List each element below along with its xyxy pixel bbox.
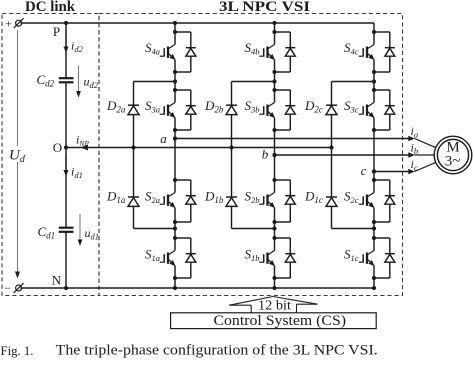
wire: neutral line O to clamp columns — [66, 147, 332, 149]
node O — [53, 140, 68, 155]
wire: phase a output line — [175, 138, 409, 140]
freewheel diode of S3c — [374, 90, 395, 130]
current arrow i_d2 — [63, 31, 83, 55]
svg-text:b: b — [262, 147, 269, 162]
svg-text:a: a — [160, 131, 167, 146]
IGBT S1b — [259, 238, 275, 278]
svg-text:DC link: DC link — [25, 0, 76, 15]
freewheel diode of S1b — [275, 238, 296, 278]
voltage arrow U_d — [6, 30, 27, 279]
current arrow i_a — [408, 124, 418, 141]
label S_1c — [344, 247, 359, 264]
freewheel diode of S4c — [374, 32, 395, 72]
wire: phase leg b interconnects — [274, 23, 276, 288]
label D_1c — [304, 189, 323, 206]
label S_2b — [245, 189, 260, 206]
label S_3c — [344, 98, 359, 115]
current arrow i_c — [408, 157, 418, 174]
svg-text:−: − — [4, 281, 11, 295]
wire: positive DC rail (P) — [21, 22, 375, 24]
svg-text:Control System (CS): Control System (CS) — [214, 312, 347, 329]
bus arrow 12 bit — [229, 297, 317, 313]
node c — [361, 163, 376, 178]
label D_2c — [304, 98, 323, 115]
label S_3a — [145, 98, 160, 115]
freewheel diode of S3a — [175, 90, 196, 130]
dashed box: DC link section border — [2, 14, 99, 296]
freewheel diode of S4b — [275, 32, 296, 72]
svg-text:P: P — [53, 24, 60, 39]
dashed box: 3L NPC VSI section border — [99, 14, 403, 296]
freewheel diode of S2a — [175, 180, 196, 222]
label S_2a — [145, 189, 160, 206]
freewheel diode of S3b — [275, 90, 296, 130]
current arrow i_b — [408, 141, 418, 158]
clamp diode D_2b — [226, 82, 275, 150]
IGBT S2c — [359, 180, 375, 222]
label S_2c — [344, 189, 359, 206]
clamp diode D_1b — [226, 148, 275, 229]
IGBT S2b — [259, 180, 275, 222]
title: DC link — [25, 0, 76, 15]
label S_1b — [245, 247, 260, 264]
node a — [160, 131, 177, 146]
label D_1b — [204, 189, 224, 206]
svg-text:N: N — [52, 273, 62, 288]
label D_2b — [204, 98, 224, 115]
svg-text:O: O — [53, 140, 62, 155]
label S_1a — [145, 247, 160, 264]
wire: phase leg a interconnects — [174, 23, 176, 288]
IGBT S3b — [259, 90, 275, 130]
voltage arrow u_d2 — [76, 66, 99, 98]
IGBT S1c — [359, 238, 375, 278]
current arrow i_d1 — [63, 154, 82, 181]
IGBT S3a — [160, 90, 176, 130]
wire: negative DC rail (N) — [21, 287, 375, 289]
freewheel diode of S4a — [175, 32, 196, 72]
node b — [262, 147, 277, 162]
svg-text:3~: 3~ — [445, 154, 461, 170]
label S_4c — [344, 40, 359, 57]
label S_4a — [145, 40, 160, 57]
caption Fig. 1 — [1, 342, 378, 359]
label D_1a — [106, 189, 126, 206]
terminal: - DC input — [4, 281, 23, 295]
svg-text:3L NPC VSI: 3L NPC VSI — [219, 0, 310, 15]
IGBT S2a — [160, 180, 176, 222]
clamp diode D_2a — [128, 82, 175, 150]
wire: phase c output line — [374, 171, 409, 173]
terminal: + DC input — [5, 17, 23, 31]
svg-text:Fig. 1.: Fig. 1. — [1, 343, 34, 358]
label S_4b — [245, 40, 260, 57]
wire: cable to motor phase c — [415, 162, 436, 171]
node N — [52, 273, 68, 291]
freewheel diode of S1c — [374, 238, 395, 278]
clamp diode D_1a — [128, 148, 175, 229]
current arrow i_NP — [76, 133, 89, 151]
svg-text:+: + — [5, 17, 12, 31]
wire: phase b output line — [275, 154, 409, 156]
freewheel diode of S2b — [275, 180, 296, 222]
IGBT S4a — [160, 32, 176, 72]
wire: DC-link capacitor column — [65, 23, 67, 288]
svg-text:The triple-phase configuration: The triple-phase configuration of the 3L… — [56, 342, 378, 359]
IGBT S4b — [259, 32, 275, 72]
junction dots phase leg b — [272, 21, 276, 290]
label S_3b — [245, 98, 260, 115]
svg-text:12 bit: 12 bit — [258, 298, 291, 313]
motor M 3~ — [434, 136, 472, 174]
title: 3L NPC VSI — [219, 0, 310, 15]
wire: cable to motor phase b — [415, 154, 435, 156]
control system box — [171, 312, 377, 329]
label D_2a — [106, 98, 126, 115]
capacitor C_d1 — [38, 224, 74, 241]
clamp diode D_2c — [326, 82, 374, 150]
IGBT S4c — [359, 32, 375, 72]
IGBT S3c — [359, 90, 375, 130]
junction dots phase leg c — [372, 30, 376, 290]
voltage arrow u_d1 — [78, 214, 99, 246]
node P — [53, 21, 68, 39]
freewheel diode of S2c — [374, 180, 395, 222]
clamp diode D_1c — [326, 148, 374, 229]
capacitor C_d2 — [37, 72, 74, 89]
wire: phase leg c interconnects — [373, 23, 375, 288]
junction dots phase leg a — [173, 21, 177, 290]
freewheel diode of S1a — [175, 238, 196, 278]
wire: cable to motor phase a — [415, 139, 436, 148]
IGBT S1a — [160, 238, 176, 278]
svg-text:c: c — [361, 163, 367, 178]
